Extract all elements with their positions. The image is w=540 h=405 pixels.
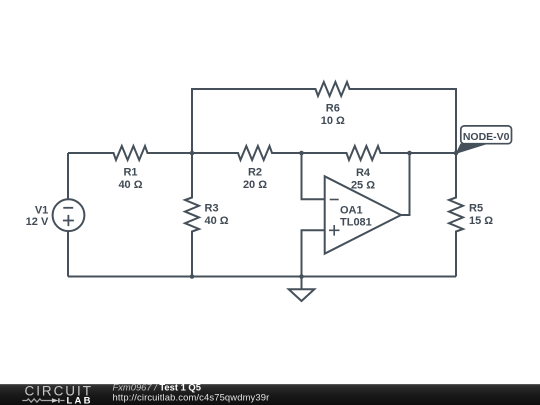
svg-text:LAB: LAB (67, 395, 93, 405)
svg-text:TL081: TL081 (340, 216, 372, 228)
svg-text:V1: V1 (35, 204, 48, 216)
svg-text:10 Ω: 10 Ω (321, 115, 345, 127)
svg-text:R3: R3 (205, 203, 219, 215)
svg-text:40 Ω: 40 Ω (118, 179, 142, 191)
svg-text:R2: R2 (248, 166, 262, 178)
svg-text:40 Ω: 40 Ω (205, 215, 229, 227)
svg-text:NODE-V0: NODE-V0 (463, 131, 510, 143)
svg-text:R5: R5 (469, 203, 483, 215)
svg-text:R1: R1 (123, 166, 137, 178)
svg-text:15 Ω: 15 Ω (469, 215, 493, 227)
svg-text:R6: R6 (326, 103, 340, 115)
svg-text:25 Ω: 25 Ω (351, 179, 375, 191)
svg-text:20 Ω: 20 Ω (243, 179, 267, 191)
svg-text:R4: R4 (356, 167, 371, 179)
svg-text:12 V: 12 V (26, 216, 49, 228)
svg-text:OA1: OA1 (340, 204, 363, 216)
svg-text:http://circuitlab.com/c4s75qwd: http://circuitlab.com/c4s75qwdmy39r (113, 391, 270, 402)
